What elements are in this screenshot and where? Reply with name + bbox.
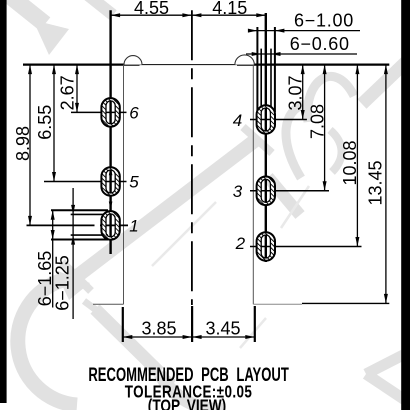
body bottom edge left: [93, 303, 124, 305]
dimension 2.67: [57, 65, 79, 113]
bottom tick middle: [191, 306, 193, 342]
dimension 6.55: [35, 65, 56, 182]
axis arrow pad 5: [109, 167, 113, 175]
vertical centerline: [191, 10, 193, 305]
pad 5 center line: [44, 181, 127, 183]
body bottom edge right: [253, 303, 302, 305]
dimension 3.85: [123, 319, 192, 340]
pad 3 center line: [250, 190, 329, 192]
pad 5: [101, 167, 119, 196]
svg-text:13.45: 13.45: [365, 160, 385, 205]
pad 6: [101, 98, 119, 127]
svg-text:3.07: 3.07: [286, 75, 306, 110]
pad label 2: [235, 234, 246, 253]
pin 4 lead outer lines: [257, 27, 275, 112]
notch arc right: [235, 55, 254, 65]
left pad column axis: [109, 10, 111, 254]
body top edge (thin middle segment): [140, 64, 238, 66]
svg-text:2.67: 2.67: [57, 75, 77, 110]
right pad column axis: [265, 13, 267, 262]
pad label 4: [233, 111, 242, 130]
dimension 6-1.00: [248, 10, 360, 32]
body inner left line: [123, 65, 125, 305]
pad label 1: [129, 217, 138, 236]
dimension 6-0.60: [246, 34, 357, 56]
svg-text:10.08: 10.08: [340, 140, 360, 185]
svg-text:6−1.00: 6−1.00: [294, 10, 354, 30]
pad 3: [257, 177, 275, 206]
svg-text:4.15: 4.15: [212, 0, 247, 18]
body top edge (thick right segment): [237, 63, 389, 65]
svg-text:8.98: 8.98: [13, 126, 33, 161]
dimension 4.55: [111, 0, 192, 18]
caption line 1: [88, 363, 288, 385]
dimension 3.07: [286, 65, 306, 120]
notch arc left: [124, 56, 142, 65]
right border bar: [401, 0, 410, 410]
pin 1 lead outer lines: [51, 210, 108, 239]
pin 1 lead center line: [27, 224, 129, 226]
pad label 3: [233, 182, 243, 201]
bottom extension line for 13.45: [302, 302, 389, 304]
caption line 2: [125, 383, 252, 402]
pad label 5: [129, 173, 139, 192]
svg-text:(TOP VIEW): (TOP VIEW): [148, 397, 226, 410]
svg-text:1: 1: [129, 217, 138, 236]
body inner right line: [252, 65, 254, 305]
svg-text:3.85: 3.85: [141, 319, 176, 339]
svg-text:3.45: 3.45: [205, 319, 240, 339]
pad label 6: [129, 104, 139, 123]
pad 2: [257, 232, 275, 261]
axis arrow pad 1: [109, 202, 113, 210]
svg-text:5: 5: [129, 173, 139, 192]
pad 2 center line: [250, 246, 362, 248]
svg-text:2: 2: [235, 234, 246, 253]
dimension 4.15: [192, 0, 266, 18]
dimension 13.45: [365, 65, 388, 304]
pad 6 center line: [71, 111, 127, 113]
svg-text:4.55: 4.55: [134, 0, 169, 18]
dimension 6-1.65: [35, 210, 55, 307]
dimension 8.98: [13, 65, 33, 226]
bottom tick right: [254, 306, 256, 342]
pad 4: [257, 105, 275, 134]
svg-text:6−0.60: 6−0.60: [290, 34, 350, 54]
pin 4 lead inner lines: [261, 49, 271, 112]
pin 1 lead inner lines: [71, 214, 108, 235]
svg-text:4: 4: [233, 111, 242, 130]
svg-text:6: 6: [129, 104, 139, 123]
dimension 10.08: [340, 65, 360, 247]
svg-text:3: 3: [233, 182, 243, 201]
left border bar: [0, 0, 7, 403]
bottom tick left: [122, 307, 124, 342]
caption line 3: [148, 397, 226, 410]
pad 4 center line: [250, 119, 307, 121]
svg-text:6−1.25: 6−1.25: [52, 255, 72, 311]
svg-text:6.55: 6.55: [35, 105, 55, 140]
svg-text:7.08: 7.08: [307, 104, 327, 139]
dimension 7.08: [307, 65, 327, 191]
dimension 3.45: [192, 319, 255, 340]
pad 1: [101, 211, 119, 240]
body top edge (thick left segment): [23, 63, 140, 65]
dimension 6-1.25: [52, 188, 75, 319]
